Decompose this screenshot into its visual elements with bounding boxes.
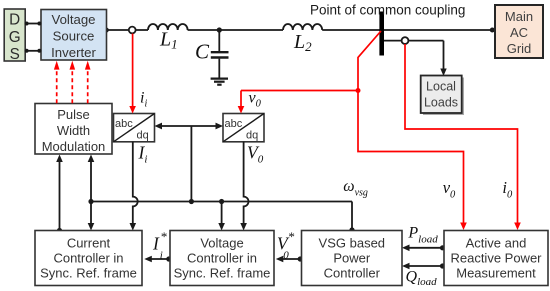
svg-text:Sync. Ref. frame: Sync. Ref. frame bbox=[40, 266, 137, 281]
svg-text:VSG based: VSG based bbox=[319, 236, 386, 251]
svg-text:Inverter: Inverter bbox=[51, 45, 96, 60]
svg-text:Voltage: Voltage bbox=[200, 236, 243, 251]
svg-text:Sync. Ref. frame: Sync. Ref. frame bbox=[174, 266, 271, 281]
svg-text:AC: AC bbox=[510, 25, 528, 40]
svg-text:Local: Local bbox=[426, 79, 456, 93]
svg-text:Controller: Controller bbox=[324, 266, 381, 281]
svg-text:Grid: Grid bbox=[507, 41, 532, 56]
svg-text:Main: Main bbox=[505, 9, 533, 24]
svg-text:i: i bbox=[160, 250, 163, 262]
svg-text:Width: Width bbox=[57, 123, 90, 138]
svg-text:abc: abc bbox=[115, 118, 133, 130]
svg-text:dq: dq bbox=[137, 130, 149, 142]
svg-text:Controller in: Controller in bbox=[53, 251, 123, 266]
svg-text:Pulse: Pulse bbox=[57, 107, 90, 122]
svg-text:Active and: Active and bbox=[466, 236, 527, 251]
svg-text:D: D bbox=[9, 12, 20, 29]
svg-text:S: S bbox=[10, 46, 20, 63]
svg-text:Source: Source bbox=[53, 29, 95, 44]
svg-text:G: G bbox=[9, 29, 21, 46]
svg-text:Measurement: Measurement bbox=[456, 266, 536, 281]
svg-text:dq: dq bbox=[246, 130, 258, 142]
svg-text:Voltage: Voltage bbox=[52, 12, 96, 27]
svg-text:*: * bbox=[288, 229, 295, 244]
svg-text:Loads: Loads bbox=[424, 96, 458, 110]
svg-text:Controller in: Controller in bbox=[187, 251, 257, 266]
svg-text:Power: Power bbox=[333, 251, 371, 266]
svg-text:Modulation: Modulation bbox=[42, 139, 106, 154]
svg-text:Reactive Power: Reactive Power bbox=[450, 251, 542, 266]
svg-text:Current: Current bbox=[67, 236, 111, 251]
svg-text:C: C bbox=[195, 40, 210, 64]
svg-text:Point of common coupling: Point of common coupling bbox=[310, 3, 465, 18]
svg-text:abc: abc bbox=[225, 118, 243, 130]
svg-text:*: * bbox=[160, 229, 167, 244]
svg-text:0: 0 bbox=[283, 250, 289, 262]
svg-text:I: I bbox=[152, 234, 160, 254]
